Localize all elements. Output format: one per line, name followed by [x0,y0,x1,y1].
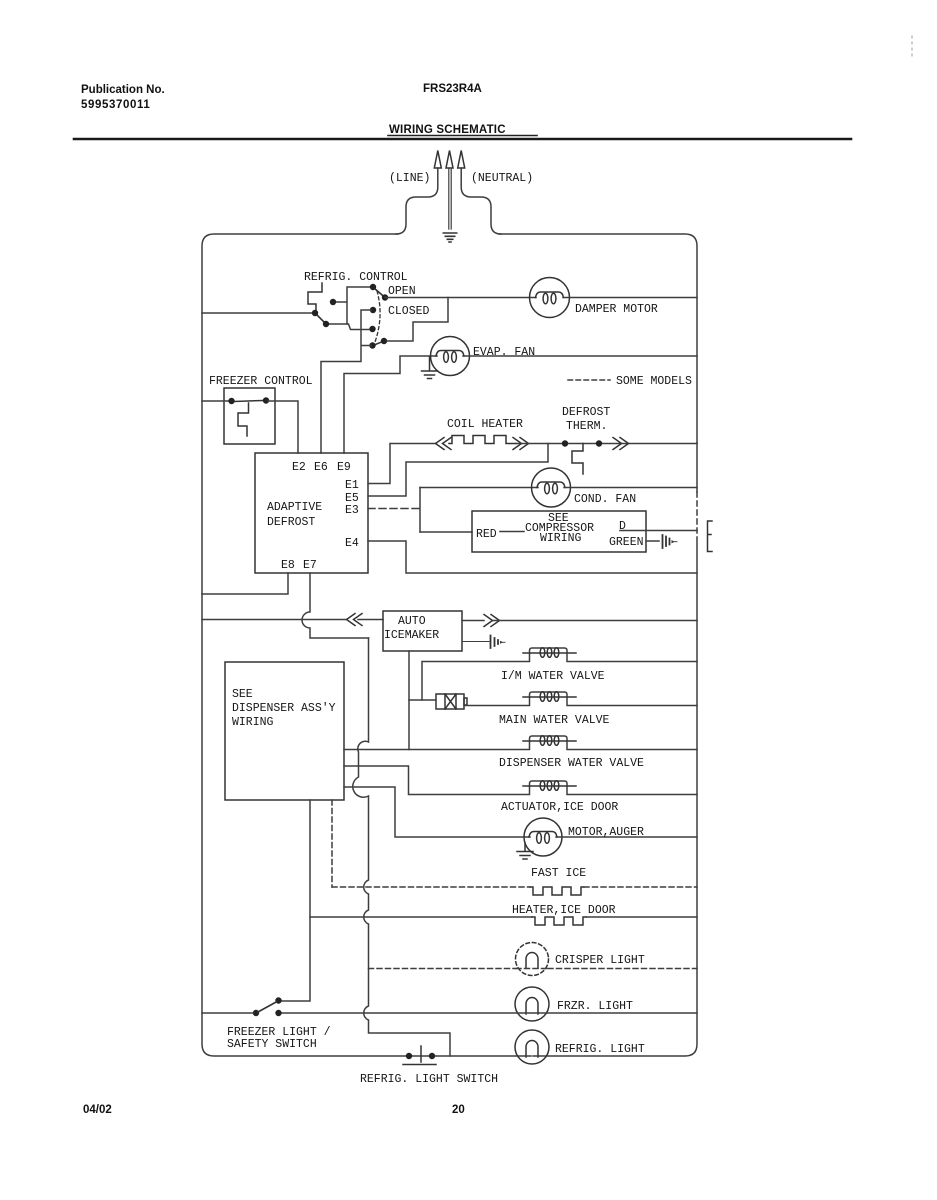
crisper light dashed line [369,968,698,970]
svg-text:DISPENSER WATER VALVE: DISPENSER WATER VALVE [499,757,644,770]
cond fan loops [537,482,565,488]
icemaker ground stub [462,641,489,643]
see dispenser box [225,662,344,800]
wire damper line [385,297,536,299]
cond fan circle [532,468,571,507]
fast ice dashed line [332,886,530,888]
connector bracket right of wall [708,521,713,552]
motor auger circle [524,818,562,856]
mains ground stem (double line) [449,168,451,229]
mains plug arrows [434,151,464,169]
neutral lead wire [461,168,501,234]
compressor wiring box [472,511,646,552]
wire damper to right wall [563,297,697,299]
actuator wire from dispenser box [344,766,697,795]
svg-text:Publication No.: Publication No. [81,84,165,96]
auto icemaker box [383,611,462,651]
red stub inside box [500,531,524,533]
svg-text:04/02: 04/02 [83,1104,112,1116]
wire freezer control to E2 [268,401,298,453]
svg-text:REFRIG. LIGHT SWITCH: REFRIG. LIGHT SWITCH [360,1073,498,1086]
safety switch arm [258,1002,277,1013]
fuse housing [436,694,467,709]
damper motor loops [536,292,564,298]
evap fan circle [431,337,470,376]
svg-text:SOME MODELS: SOME MODELS [616,375,692,388]
refrig control common bus [328,287,371,324]
svg-text:MOTOR,AUGER: MOTOR,AUGER [568,826,644,839]
publication header [81,83,506,136]
wire auger to right wall [556,836,697,838]
svg-text:E1: E1 [345,479,359,492]
refrig light switch contacts [406,1053,435,1059]
chassis ground green [663,535,678,548]
safety switch contacts [253,997,282,1016]
svg-text:RED: RED [476,528,497,541]
svg-text:REFRIG. CONTROL: REFRIG. CONTROL [304,271,408,284]
svg-text:MAIN WATER VALVE: MAIN WATER VALVE [499,714,610,727]
switch arm J-I [373,341,384,346]
defrost therm body [572,444,583,475]
wire cond fan line [420,487,538,489]
svg-text:E9: E9 [337,461,351,474]
evap fan ground [422,357,438,379]
heater ice door line [310,916,532,918]
dashed wire dispenser box to fast ice [331,800,333,887]
wire E1 to coil heater [368,444,436,484]
svg-text:ADAPTIVE: ADAPTIVE [267,501,322,514]
d wire to right wall [620,530,697,532]
wire cond fan to right wall [564,487,697,489]
freezer switch arm [234,401,263,402]
motor auger ground [517,843,533,859]
motor auger wire from dispenser box [344,787,530,837]
rotary switch dashed arc [375,291,380,342]
dispenser water valve wire [344,736,697,750]
motor auger loops [529,832,557,838]
svg-text:20: 20 [452,1104,465,1116]
svg-text:CLOSED: CLOSED [388,305,430,318]
svg-text:EVAP. FAN: EVAP. FAN [473,346,535,359]
wire red lead [420,531,472,533]
damper motor circle [530,278,570,318]
svg-text:(NEUTRAL): (NEUTRAL) [471,172,533,185]
svg-text:E7: E7 [303,559,317,572]
title underline [388,135,537,137]
wire E pole to contact H (jog) [347,324,369,330]
svg-text:DAMPER MOTOR: DAMPER MOTOR [575,303,658,316]
refrig lamp filament [526,1041,538,1057]
refrig light circle [515,1030,549,1064]
svg-text:E3: E3 [345,504,359,517]
wire evap fan to right wall [463,355,697,357]
svg-text:E6: E6 [314,461,328,474]
svg-text:DEFROST: DEFROST [267,516,315,529]
green wire to chassis ground [646,540,659,542]
svg-text:COIL HEATER: COIL HEATER [447,418,523,431]
main enclosure outline [202,234,531,1056]
fast ice heater element [530,887,584,895]
defrost therm label [562,406,610,433]
svg-text:WIRING SCHEMATIC: WIRING SCHEMATIC [389,124,506,136]
chevron in-connector [436,438,452,450]
crisper lamp filament [526,953,538,968]
svg-text:THERM.: THERM. [566,420,607,433]
wire G and J to E6 riser [321,310,371,453]
svg-text:FRS23R4A: FRS23R4A [423,83,482,95]
svg-text:COND. FAN: COND. FAN [574,493,636,506]
refrig control sensor zigzag [308,283,322,313]
frzr lamp filament [526,998,538,1014]
svg-text:FAST ICE: FAST ICE [531,867,586,880]
actuator coil [523,781,576,791]
wire left wall to refrig control [202,312,313,314]
svg-text:WIRING: WIRING [540,532,582,545]
svg-text:AUTO: AUTO [398,615,426,628]
im water valve wire [422,648,697,700]
svg-text:DISPENSER ASS'Y: DISPENSER ASS'Y [232,702,336,715]
chevron icemaker out [484,615,500,627]
chevron after therm [613,438,629,450]
svg-text:E4: E4 [345,537,359,550]
header rule [74,138,851,141]
svg-text:SAFETY SWITCH: SAFETY SWITCH [227,1038,317,1051]
svg-text:HEATER,ICE DOOR: HEATER,ICE DOOR [512,904,616,917]
icemaker feed line from left wall [202,619,347,621]
svg-text:ICEMAKER: ICEMAKER [384,629,439,642]
chevron icemaker in [347,614,363,626]
svg-text:FRZR. LIGHT: FRZR. LIGHT [557,1000,633,1013]
svg-text:REFRIG. LIGHT: REFRIG. LIGHT [555,1043,645,1056]
crisper light dashed circle [516,943,549,976]
vertical E3 to cond fan / red [419,488,421,533]
coil heater element (square wave) [449,436,516,444]
frzr light circle [515,987,549,1021]
svg-text:GREEN: GREEN [609,536,644,549]
wire E5 feeder [368,444,548,497]
svg-text:OPEN: OPEN [388,285,416,298]
svg-text:DEFROST: DEFROST [562,406,610,419]
svg-text:5995370011: 5995370011 [81,99,150,111]
switch arm D-E [316,314,326,324]
contact dots [312,284,388,349]
im water valve coil [523,648,576,658]
wire left wall to safety switch [202,1012,253,1014]
adaptive defrost box [255,453,368,573]
ground symbol mains [443,233,456,242]
E7 net vertical with hops [353,638,450,1056]
scan artifacts top right [911,36,913,56]
freezer control contacts [228,397,269,404]
main water valve coil [523,692,576,702]
defrost therm contacts [562,440,602,446]
wire E8 to left wall [202,573,288,594]
freezer control box [224,388,275,444]
svg-text:WIRING: WIRING [232,716,274,729]
svg-text:FREEZER CONTROL: FREEZER CONTROL [209,375,313,388]
icemaker out wire [462,620,484,622]
freezer control zigzag [238,403,249,436]
line lead wire [396,168,438,234]
right wall segments [696,443,698,492]
some models dashed legend [568,379,610,381]
main water valve wire [464,692,697,706]
wire dispenser box to safety switch [281,800,310,1001]
svg-text:I/M WATER VALVE: I/M WATER VALVE [501,670,605,683]
chevron out-connector [513,438,529,450]
freezer light safety switch label [227,1026,331,1051]
svg-text:ACTUATOR,ICE DOOR: ACTUATOR,ICE DOOR [501,801,618,814]
heater ice door element [532,917,586,925]
evap fan loops [436,351,464,357]
frzr light line [281,1012,697,1014]
wire E4 feeder [368,541,697,573]
wire E7 down with hop over icemaker line [302,573,369,638]
wire E3 dashed [368,508,420,510]
wire evap fan feed from E9 [344,356,437,453]
icemaker box bottom feed to fuse [409,651,435,700]
svg-text:CRISPER LIGHT: CRISPER LIGHT [555,954,645,967]
svg-text:E8: E8 [281,559,295,572]
svg-text:E2: E2 [292,461,306,474]
switch arm A-B [374,288,385,298]
svg-text:SEE: SEE [232,688,253,701]
svg-text:(LINE): (LINE) [389,172,430,185]
wire to defrost therm [516,443,697,445]
dispenser valve feed up to fuse junction [408,700,410,750]
dispenser water valve coil [523,736,576,746]
refrig light switch plunger [403,1046,436,1065]
staircase damper line to closed contact I [387,298,448,342]
wire left wall to freezer control [202,400,229,402]
